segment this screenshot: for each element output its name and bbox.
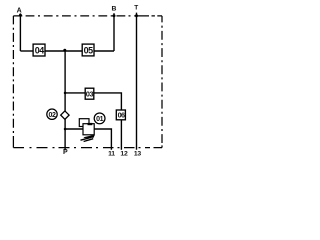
balloon 02: [47, 109, 57, 119]
node P branch junction dot: [63, 49, 66, 52]
pump unit 01 arrow: [83, 135, 94, 138]
svg-text:04: 04: [35, 46, 45, 56]
svg-text:B: B: [112, 6, 117, 13]
wire A to valve 04: [20, 50, 33, 52]
svg-text:05: 05: [84, 46, 94, 56]
svg-text:03: 03: [86, 89, 94, 98]
svg-text:01: 01: [96, 116, 103, 123]
svg-text:T: T: [134, 5, 138, 12]
wire valve 03 to valve 06: [94, 93, 122, 110]
node junction to valve 03: [64, 92, 67, 95]
valve 05: [82, 44, 94, 56]
wire port T to port 13: [136, 13, 138, 150]
svg-text:06: 06: [118, 111, 125, 120]
pump unit 01 zigzag: [81, 137, 94, 141]
svg-text:P: P: [63, 149, 68, 156]
pump unit 01 back block: [79, 119, 89, 127]
wire pump 01 to port 11: [94, 129, 111, 150]
wire P line lower segment to port P: [64, 119, 66, 150]
svg-text:12: 12: [120, 150, 128, 157]
svg-text:11: 11: [108, 150, 115, 157]
node junction to pump 01: [64, 128, 67, 131]
filter 02 diamond: [61, 111, 69, 119]
pump unit 01 top bar: [88, 123, 93, 125]
wire valve 04 to valve 05: [45, 50, 82, 52]
valve 04: [33, 44, 45, 56]
wire P line upper segment: [64, 51, 66, 112]
pump unit 01 front block: [83, 124, 94, 135]
wire P line to pump 01: [65, 128, 83, 130]
node T junction dot: [135, 14, 138, 17]
wire P line to valve 03: [65, 92, 85, 94]
wire port A down: [19, 13, 21, 51]
node B junction dot: [113, 14, 116, 17]
wire valve 05 to B: [94, 50, 114, 52]
wire port B down: [113, 13, 115, 51]
svg-text:02: 02: [49, 112, 56, 119]
svg-text:13: 13: [134, 150, 142, 157]
wire valve 06 to port 12: [120, 120, 122, 150]
enclosure boundary (chain line): [13, 16, 162, 148]
valve 03: [85, 88, 94, 99]
node A junction dot: [19, 14, 22, 17]
balloon 01: [94, 113, 105, 124]
valve 06: [116, 110, 125, 120]
